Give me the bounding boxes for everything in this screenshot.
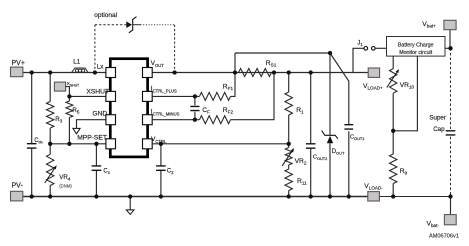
resistor VR_2 (variable) <box>288 144 290 169</box>
wire I_CTRL_MINUS row <box>152 73 274 120</box>
svg-text:Cx: Cx <box>103 168 110 175</box>
svg-text:XSHUT: XSHUT <box>86 88 109 95</box>
node dots MPP-SET / V_CTRL rows <box>48 142 52 146</box>
wire PV+ rail to Lx <box>23 72 106 74</box>
svg-text:Super: Super <box>429 115 446 122</box>
box battery charge monitor <box>387 37 446 57</box>
svg-text:Battery Charge: Battery Charge <box>398 42 434 48</box>
node dots top rail <box>30 70 34 74</box>
terminal X_SHUT <box>54 82 65 91</box>
capacitor C_F <box>194 96 196 119</box>
resistor R_S1 <box>239 69 272 77</box>
terminal V_bat- <box>450 197 452 215</box>
wire battery box right leg <box>393 56 417 131</box>
resistor R_3 <box>49 73 51 144</box>
wire ground rail <box>23 196 380 198</box>
terminal V_bat+ <box>449 30 451 49</box>
resistor R_1 <box>288 73 290 144</box>
wire ground rail right part <box>380 196 451 198</box>
resistor R_11 <box>288 191 290 197</box>
svg-text:Cap: Cap <box>433 126 445 133</box>
svg-text:J1: J1 <box>357 40 363 47</box>
svg-text:Monitor circuit: Monitor circuit <box>399 50 432 56</box>
inductor L1 <box>72 68 88 73</box>
svg-text:Lx: Lx <box>97 63 105 70</box>
terminal V_LOAD- <box>368 192 380 201</box>
resistor R_5 <box>68 96 70 143</box>
svg-text:PV-: PV- <box>12 182 24 189</box>
wire X_SHUT to XSHUT pin <box>66 87 106 97</box>
diode D_OUT (schottky to GND) <box>329 53 331 197</box>
svg-text:C2: C2 <box>167 168 174 175</box>
ground symbol at GND pin <box>77 120 106 129</box>
pin box right <box>143 68 153 78</box>
diode optional (schottky) <box>126 21 132 28</box>
svg-text:DOUT: DOUT <box>332 149 345 156</box>
IC U1 body <box>110 59 147 157</box>
terminal PV- <box>11 191 23 201</box>
svg-text:COUT1: COUT1 <box>350 134 364 141</box>
pin box left <box>106 115 116 125</box>
svg-text:COUT2: COUT2 <box>313 155 327 162</box>
ground symbol main <box>129 197 131 210</box>
optional dashed box left edge <box>94 25 96 73</box>
capacitor Super Cap (dashed link) <box>450 48 452 129</box>
jumper J_1 <box>353 48 364 72</box>
wire V_CTRL row <box>152 143 289 145</box>
wire upper V_OUT net <box>235 52 330 54</box>
pin box right <box>143 91 153 101</box>
node dot XSHUT <box>67 94 71 98</box>
resistor R_F1 <box>200 92 231 100</box>
pin box left <box>106 139 116 149</box>
capacitor C_x <box>95 144 97 197</box>
wire V_OUT main rail <box>152 72 368 74</box>
wire I_CTRL_PLUS row <box>152 73 235 97</box>
terminal V_LOAD+ <box>368 68 379 77</box>
svg-text:AM06706v1: AM06706v1 <box>429 233 459 239</box>
pin box left <box>106 91 116 101</box>
wire diode cathode to right edge <box>133 24 141 26</box>
node dots ground rail <box>30 194 34 198</box>
svg-text:(DNM): (DNM) <box>59 183 72 188</box>
node dot V_bat+ <box>448 46 452 50</box>
pin box right <box>143 115 153 125</box>
resistor VR_4 (variable, DNM) <box>49 144 51 197</box>
svg-text:CIN: CIN <box>34 138 42 145</box>
capacitor C_OUT1 <box>348 124 350 197</box>
resistor R_F2 <box>200 116 231 124</box>
optional dashed right edge <box>174 25 176 73</box>
wire diagonal upper net to C_OUT1 <box>330 53 349 124</box>
wire MPP-SET <box>50 143 106 145</box>
svg-text:optional: optional <box>94 12 117 19</box>
capacitor C_2 <box>160 144 162 197</box>
capacitor C_OUT2 <box>310 73 312 197</box>
capacitor C_IN <box>31 73 33 197</box>
terminal PV+ <box>11 67 23 77</box>
wire battery box to V_bat+ node <box>445 47 451 49</box>
node dot upper net <box>328 51 332 55</box>
resistor R_9 <box>392 131 394 197</box>
node dots C_F <box>193 94 197 98</box>
svg-text:L1: L1 <box>73 58 81 65</box>
wire upper net drop to R_S1 left <box>234 53 236 73</box>
optional dashed top edge <box>95 24 126 26</box>
svg-text:MPP-SET: MPP-SET <box>77 135 107 142</box>
node dots V_OUT rail <box>172 70 176 74</box>
node dot VR10/R9 <box>391 129 395 133</box>
resistor VR_10 (variable) <box>392 56 394 131</box>
svg-text:GND: GND <box>92 110 107 117</box>
pin box right <box>143 139 153 149</box>
pin box left <box>106 68 116 78</box>
svg-text:PV+: PV+ <box>12 60 25 67</box>
